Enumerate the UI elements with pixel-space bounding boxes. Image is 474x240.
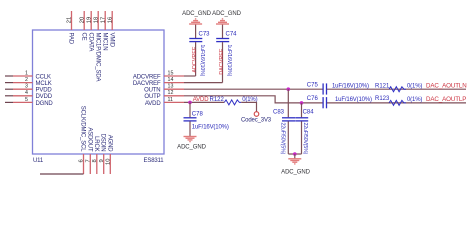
svg-text:18: 18 bbox=[93, 17, 99, 23]
svg-text:1uF/16V(10%): 1uF/16V(10%) bbox=[199, 45, 205, 77]
svg-text:7: 7 bbox=[85, 159, 91, 162]
svg-text:LRCK: LRCK bbox=[93, 136, 99, 152]
svg-text:VMID: VMID bbox=[108, 33, 114, 48]
svg-text:13: 13 bbox=[168, 84, 174, 90]
svg-text:CDATA: CDATA bbox=[87, 33, 93, 52]
svg-text:C84: C84 bbox=[303, 110, 315, 116]
svg-text:17: 17 bbox=[100, 17, 106, 23]
svg-text:C74: C74 bbox=[226, 32, 238, 38]
junction OUTP/C84 bbox=[300, 101, 304, 105]
pin 7 ASDOUT stub bbox=[85, 127, 92, 174]
svg-text:1uF/16V(10%): 1uF/16V(10%) bbox=[335, 97, 372, 103]
node pin 1 CCLK bbox=[25, 70, 51, 80]
svg-text:ADCVREF: ADCVREF bbox=[133, 74, 161, 80]
svg-text:2: 2 bbox=[25, 77, 28, 83]
wire AVDD net bbox=[184, 101, 224, 103]
ground ADC_GND above C73 (flipped) bbox=[182, 11, 211, 24]
svg-text:Codec_3V3: Codec_3V3 bbox=[241, 118, 272, 124]
power port Codec_3V3 bbox=[241, 112, 272, 124]
svg-text:22uF/50V(5%): 22uF/50V(5%) bbox=[280, 123, 286, 155]
svg-text:ADC_GND: ADC_GND bbox=[212, 11, 241, 17]
pin 10 AGND stub bbox=[105, 135, 112, 174]
op-amp U11 ES8311 body bbox=[33, 30, 165, 164]
junction on AVDD at C78 bbox=[188, 101, 192, 105]
wire OUTP net with jog bbox=[184, 96, 466, 103]
svg-text:DACVREF: DACVREF bbox=[133, 81, 161, 87]
svg-text:22uF/50V(5%): 22uF/50V(5%) bbox=[302, 123, 308, 155]
svg-text:R122: R122 bbox=[210, 97, 225, 103]
svg-text:C75: C75 bbox=[307, 83, 319, 89]
pin 13 OUTN stub bbox=[144, 84, 184, 94]
resistor R121 bbox=[375, 84, 422, 92]
svg-text:19: 19 bbox=[86, 17, 92, 23]
svg-text:ADCVREF: ADCVREF bbox=[192, 46, 198, 73]
svg-text:R123: R123 bbox=[375, 96, 390, 102]
node pin 4 DVDD bbox=[25, 90, 53, 100]
capacitor C75 bbox=[307, 83, 369, 95]
pin 6 SCLK/DMIC_SCL stub bbox=[79, 106, 86, 174]
svg-text:5: 5 bbox=[25, 97, 28, 103]
pin 11 AVDD stub bbox=[145, 97, 184, 107]
pin 21 PAD stub bbox=[67, 11, 74, 45]
ground ADC_GND below C83/C84 bbox=[281, 159, 310, 176]
capacitor C84 bbox=[295, 103, 314, 155]
wire OUTN net bbox=[184, 88, 466, 90]
svg-text:10: 10 bbox=[105, 159, 111, 165]
junction OUTN/C83 bbox=[287, 87, 291, 91]
svg-text:PAD: PAD bbox=[68, 33, 74, 45]
wire pin1 stub bbox=[5, 75, 33, 77]
svg-text:9: 9 bbox=[99, 159, 105, 162]
svg-text:MIC1P/DMIC_SDA: MIC1P/DMIC_SDA bbox=[94, 33, 100, 82]
svg-text:1uF/16V(10%): 1uF/16V(10%) bbox=[192, 125, 229, 131]
wire pin4 stub bbox=[5, 95, 33, 97]
svg-text:DAC_AOUTLP: DAC_AOUTLP bbox=[426, 96, 466, 103]
pin 12 OUTP stub bbox=[144, 90, 184, 100]
svg-text:20: 20 bbox=[79, 17, 85, 23]
svg-text:MIC1N: MIC1N bbox=[101, 33, 107, 51]
svg-text:12: 12 bbox=[168, 90, 174, 96]
wire pin5 stub bbox=[5, 101, 33, 103]
svg-text:OUTN: OUTN bbox=[144, 88, 160, 94]
pin 14 DACVREF stub bbox=[133, 77, 184, 87]
resistor R123 bbox=[375, 96, 422, 105]
svg-text:R121: R121 bbox=[375, 84, 390, 90]
svg-text:3: 3 bbox=[25, 84, 28, 90]
ground ADC_GND below C78 bbox=[177, 137, 206, 151]
pin 18 MIC1P/DMIC_SDA stub bbox=[93, 11, 100, 82]
svg-text:4: 4 bbox=[25, 90, 28, 96]
svg-text:DVDD: DVDD bbox=[36, 94, 53, 100]
svg-text:11: 11 bbox=[168, 97, 174, 103]
capacitor C76 bbox=[307, 96, 372, 108]
svg-text:DAC_AOUTLN: DAC_AOUTLN bbox=[426, 83, 467, 90]
wire pin3 stub bbox=[5, 88, 33, 90]
wire pin2 stub bbox=[5, 82, 33, 84]
svg-text:C78: C78 bbox=[192, 112, 204, 118]
wire R122 to Codec_3V3 bbox=[241, 102, 256, 111]
svg-text:C83: C83 bbox=[273, 110, 285, 116]
node pin 5 DGND bbox=[25, 97, 53, 107]
node AVDD net label bbox=[193, 97, 210, 103]
svg-text:ADC_GND: ADC_GND bbox=[182, 11, 211, 17]
svg-text:C73: C73 bbox=[199, 32, 211, 38]
capacitor C73 bbox=[189, 24, 210, 76]
svg-text:6: 6 bbox=[79, 159, 85, 162]
svg-text:ASDOUT: ASDOUT bbox=[86, 127, 92, 152]
svg-text:U11: U11 bbox=[33, 158, 44, 164]
svg-text:PVDD: PVDD bbox=[36, 88, 53, 94]
svg-text:ADC_GND: ADC_GND bbox=[177, 145, 206, 151]
wire C83/C84 join bbox=[288, 152, 301, 158]
capacitor C74 bbox=[216, 24, 237, 82]
svg-text:0(1%): 0(1%) bbox=[407, 97, 422, 103]
node DAC_AOUTLP net label bbox=[426, 96, 466, 103]
node DAC_AOUTLN net label bbox=[426, 83, 467, 90]
svg-text:15: 15 bbox=[168, 70, 174, 76]
pin 20 CE stub bbox=[79, 11, 86, 41]
svg-text:21: 21 bbox=[67, 17, 73, 23]
svg-text:C76: C76 bbox=[307, 96, 319, 102]
ground ADC_GND above C74 (flipped) bbox=[212, 11, 241, 24]
svg-text:ES8311: ES8311 bbox=[143, 158, 164, 164]
svg-text:1: 1 bbox=[25, 70, 28, 76]
resistor R122 bbox=[210, 97, 258, 105]
svg-text:1uF/16V(10%): 1uF/16V(10%) bbox=[332, 84, 369, 90]
svg-text:8: 8 bbox=[92, 159, 98, 162]
svg-text:CE: CE bbox=[80, 33, 86, 41]
svg-text:14: 14 bbox=[168, 77, 174, 83]
svg-text:DACVREF: DACVREF bbox=[219, 48, 225, 75]
svg-text:ADC_GND: ADC_GND bbox=[281, 170, 310, 176]
wire ADCVREF net to C73 bbox=[184, 75, 196, 77]
wire DACVREF net to C74 bbox=[184, 82, 223, 84]
svg-text:DSDIN: DSDIN bbox=[100, 134, 106, 152]
svg-text:0(1%): 0(1%) bbox=[407, 84, 422, 90]
svg-text:CCLK: CCLK bbox=[36, 74, 52, 80]
svg-text:16: 16 bbox=[107, 17, 113, 23]
node pin 2 MCLK bbox=[25, 77, 52, 87]
capacitor C78 bbox=[184, 102, 229, 136]
node pin 3 PVDD bbox=[25, 84, 52, 94]
capacitor C83 bbox=[273, 89, 295, 154]
svg-text:OUTP: OUTP bbox=[144, 94, 160, 100]
pin 9 DSDIN stub bbox=[99, 134, 106, 174]
wire pin6 net to left bbox=[40, 173, 84, 175]
pin 19 CDATA stub bbox=[86, 11, 93, 51]
pin 17 MIC1N stub bbox=[100, 11, 107, 50]
svg-text:AVDD: AVDD bbox=[145, 101, 161, 107]
pin 16 VMID stub bbox=[107, 11, 114, 48]
svg-text:DGND: DGND bbox=[36, 101, 54, 107]
svg-text:AVDD: AVDD bbox=[193, 97, 210, 103]
svg-text:1uF/16V(10%): 1uF/16V(10%) bbox=[226, 45, 232, 77]
pin 8 LRCK stub bbox=[92, 136, 99, 174]
svg-text:MCLK: MCLK bbox=[36, 81, 52, 87]
svg-text:SCLK/DMIC_SCL: SCLK/DMIC_SCL bbox=[80, 106, 86, 153]
pin 15 ADCVREF stub bbox=[133, 70, 184, 80]
svg-text:AGND: AGND bbox=[106, 135, 112, 153]
